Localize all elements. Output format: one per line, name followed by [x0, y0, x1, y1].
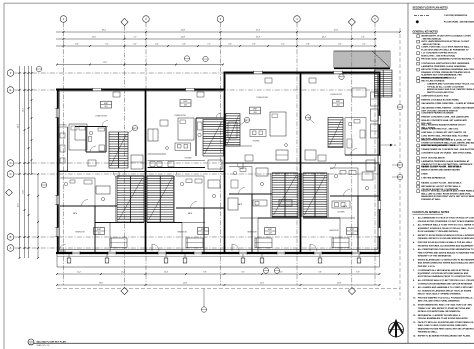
bed unit2: [178, 118, 194, 140]
svg-text:E: E: [10, 88, 12, 92]
grid bubble 2: [143, 16, 150, 23]
tag circle right mid: [397, 104, 402, 109]
svg-text:9′-0″: 9′-0″: [252, 44, 256, 46]
svg-text:PER NBC 9.10.19.: PER NBC 9.10.19.: [418, 266, 436, 268]
svg-text:FLOOR PLAN GENERAL NOTES: FLOOR PLAN GENERAL NOTES: [413, 211, 450, 214]
svg-text:24′-8″: 24′-8″: [181, 30, 186, 32]
setback dashed line: [57, 288, 400, 290]
exterior wall left: [57, 90, 59, 255]
svg-text:8′-2″: 8′-2″: [338, 44, 342, 46]
svg-text:9′-2″: 9′-2″: [105, 44, 109, 46]
svg-text:BEDROOM: BEDROOM: [178, 232, 187, 234]
sheet border left: [3, 3, 5, 349]
interior door arcs extra: [113, 172, 119, 178]
sheet bottom rule: [34, 342, 474, 344]
bottom dim line 1: [57, 273, 380, 275]
tag circle R2: [397, 174, 402, 179]
windows right wall: [378, 116, 381, 125]
svg-text:103: 103: [269, 233, 272, 235]
bedroom divider walls: [94, 206, 96, 252]
svg-text:6′-4″: 6′-4″: [155, 44, 159, 46]
grid bubble 1: [60, 16, 67, 23]
hall vertical stubs: [109, 223, 111, 253]
property line: [399, 28, 401, 300]
grid bubble F: [7, 70, 14, 77]
tag circles bottom: [263, 268, 268, 273]
svg-text:GENERAL KEYNOTES: GENERAL KEYNOTES: [413, 30, 439, 33]
top dim line 2: [56, 38, 377, 40]
deck hatch top right: [334, 51, 390, 68]
stair unit1 upper: [109, 132, 128, 168]
grid bubble E: [7, 87, 14, 94]
grid line F: [14, 72, 380, 74]
kitchen counters extra u2: [148, 153, 167, 155]
left matchline diamond: [6, 189, 13, 196]
svg-text:25′-4″: 25′-4″: [256, 30, 261, 32]
stair unit1 lower: [117, 176, 144, 222]
svg-text:14′-0″: 14′-0″: [92, 37, 97, 39]
unit1 label: [101, 101, 112, 108]
exterior wall top (units 3-4): [224, 72, 380, 74]
sheet border top: [4, 2, 474, 4]
svg-text:5′-2″: 5′-2″: [362, 44, 366, 46]
closets right wall: [371, 92, 379, 106]
exterior wall right: [379, 72, 381, 255]
stair unit3 upper: [226, 114, 240, 147]
stair guard rails: [115, 176, 117, 222]
legend floor drain: [416, 21, 419, 24]
stair unit2 lower: [147, 176, 174, 222]
tag circle below: [203, 289, 205, 307]
svg-text:25′-8″: 25′-8″: [334, 30, 339, 32]
matchline diamond bottom B: [348, 287, 355, 294]
svg-text:SECOND FLOOR PLAN NOTES: SECOND FLOOR PLAN NOTES: [413, 6, 449, 9]
patio edge: [57, 266, 380, 268]
window tag W9: [203, 56, 208, 61]
svg-text:10.: 10.: [413, 298, 416, 300]
top dim line 4 (left bay): [57, 64, 223, 66]
extra bath fixtures u3: [256, 168, 268, 176]
tag circle R1: [397, 162, 402, 167]
left tag circle upper: [36, 66, 41, 71]
closet/wardrobe mid clutter: [131, 155, 143, 169]
svg-text:31′-4″: 31′-4″: [17, 123, 19, 128]
party wall units 3/4: [300, 73, 302, 253]
footing line below bottom wall: [57, 255, 380, 257]
stair unit4 upper: [328, 118, 343, 148]
svg-text:LINEN: LINEN: [421, 174, 428, 176]
svg-text:104: 104: [351, 233, 354, 235]
svg-text:BEDROOM: BEDROOM: [76, 232, 85, 234]
drawing title text: [37, 341, 67, 344]
left dim line 2: [24, 66, 26, 258]
extra bath fixtures u4: [362, 172, 373, 180]
grid line B: [14, 236, 380, 238]
svg-text:D: D: [10, 161, 12, 165]
grid line C: [14, 173, 380, 175]
svg-text:203: 203: [254, 112, 257, 114]
keynotes title: [413, 30, 439, 33]
svg-text:7′-2″: 7′-2″: [133, 37, 137, 39]
svg-text:1 LT CONCRETE TOPPING WITH 1R: 1 LT CONCRETE TOPPING WITH 1R: [421, 53, 457, 55]
drawing title bubble: [28, 339, 34, 345]
grid bubble D: [7, 160, 14, 167]
stair unit3 lower: [272, 173, 298, 217]
unit3 label: [250, 107, 261, 114]
left dim line 4: [31, 66, 33, 174]
grid line D: [14, 162, 380, 164]
svg-text:A: A: [10, 246, 12, 250]
svg-text:201: 201: [105, 106, 108, 108]
kitchen counters extra u3/u4: [279, 200, 292, 206]
grid bubble 5: [372, 16, 379, 23]
right wall leader tag: [381, 144, 390, 146]
misc small fixtures: [113, 92, 120, 97]
grid bubble 3: [217, 16, 224, 23]
svg-text:6′-2″: 6′-2″: [281, 44, 285, 46]
north arrow: [389, 322, 404, 337]
svg-text:B: B: [10, 235, 12, 239]
stair unit4 lower: [303, 173, 327, 217]
windows left wall: [55, 109, 58, 118]
landing lines: [117, 175, 144, 177]
window tag W6: [184, 56, 189, 61]
grid line E: [14, 89, 380, 91]
unit 1 interior: [59, 127, 68, 171]
svg-text:12.: 12.: [413, 315, 416, 317]
room names lower: [73, 212, 77, 215]
exterior wall top (units 1-2): [56, 89, 225, 91]
grid bubble A: [7, 245, 14, 252]
unit4 label: [333, 100, 344, 107]
svg-text:13.: 13.: [413, 322, 416, 324]
svg-text:BEDROOM: BEDROOM: [330, 230, 339, 232]
svg-text:1: 1: [31, 340, 32, 342]
notes column divider: [407, 3, 409, 343]
svg-text:101: 101: [98, 233, 101, 235]
svg-text:7′-6″: 7′-6″: [361, 37, 365, 39]
extra bath fixtures u2: [208, 180, 220, 188]
svg-text:8′-6″: 8′-6″: [75, 44, 79, 46]
svg-text:LIVING ROOM: LIVING ROOM: [95, 116, 107, 118]
dresser unit4: [352, 88, 366, 97]
left dim line 3: [28, 66, 30, 258]
party wall units 2/3: [224, 90, 226, 253]
left dim line 5: [37, 174, 39, 258]
top dim line 3: [56, 45, 377, 47]
grid line 3: [220, 22, 222, 285]
party wall units 1/2: [145, 90, 147, 253]
closets along bottom wall: [110, 238, 127, 248]
grid bubble 4: [294, 16, 301, 23]
unit 3 interior: [250, 130, 266, 137]
grid line 5: [374, 22, 376, 285]
svg-text:C: C: [10, 172, 12, 176]
grid bubble C: [7, 171, 14, 178]
svg-text:204: 204: [337, 105, 340, 107]
patio posts: [67, 258, 71, 263]
matchline A vertical: [124, 26, 126, 287]
svg-text:28′-0″: 28′-0″: [102, 30, 107, 32]
tag circle u4a: [305, 115, 310, 120]
svg-text:24′-6″: 24′-6″: [17, 202, 19, 207]
svg-text:LIVING ROOM: LIVING ROOM: [174, 115, 186, 117]
grid line A: [14, 247, 380, 249]
matchline diamond top B: [348, 18, 355, 25]
bed unit1: [69, 124, 87, 150]
bottom dim line 2: [57, 284, 380, 286]
legend fire separation: [414, 14, 429, 16]
svg-text:11.: 11.: [413, 305, 416, 307]
svg-text:202: 202: [184, 105, 187, 107]
svg-text:18′-2″: 18′-2″: [322, 37, 327, 39]
top dim line 1: [56, 31, 400, 33]
exterior wall bottom: [56, 252, 380, 254]
svg-text:LIVING ROOM: LIVING ROOM: [256, 97, 268, 99]
extra bath fixtures u1: [96, 186, 110, 194]
svg-text:24′-8″: 24′-8″: [181, 37, 186, 39]
stair unit2 upper: [203, 120, 224, 157]
windows top wall right section: [254, 71, 263, 74]
tag circle u1: [132, 125, 137, 130]
svg-text:25′-4″: 25′-4″: [256, 37, 261, 39]
grid line 1: [63, 22, 65, 285]
windows bottom wall: [72, 251, 80, 254]
windows top wall left section: [93, 88, 102, 91]
grid bubble B: [7, 234, 14, 241]
matchline diamond top A: [121, 18, 128, 25]
unit 2 interior: [175, 143, 191, 151]
bed unit3: [270, 112, 286, 136]
grid line 2: [145, 22, 147, 285]
unit2 label: [180, 100, 191, 107]
svg-text:5′-6″: 5′-6″: [182, 44, 186, 46]
svg-text:5′-0″: 5′-0″: [133, 44, 137, 46]
small leader lines: [128, 128, 135, 133]
tag circle u3: [244, 117, 249, 122]
tag circle u4b: [339, 74, 344, 79]
grid line 4: [296, 22, 298, 285]
exterior wall step: [224, 72, 226, 91]
svg-text:LIVING ROOM: LIVING ROOM: [330, 94, 342, 96]
hallway walls lower: [95, 222, 110, 224]
matchline diamond bottom A: [121, 287, 128, 294]
left tag circle lower: [41, 182, 46, 187]
matchline B vertical: [351, 26, 353, 287]
left dim line 1: [19, 66, 21, 258]
notes title: [413, 6, 449, 9]
general notes title: [413, 211, 450, 214]
svg-text:4′-4″: 4′-4″: [228, 44, 232, 46]
exterior side stair: [375, 70, 393, 97]
svg-text:7′-2″: 7′-2″: [207, 44, 211, 46]
svg-text:6′-8″: 6′-8″: [306, 44, 310, 46]
